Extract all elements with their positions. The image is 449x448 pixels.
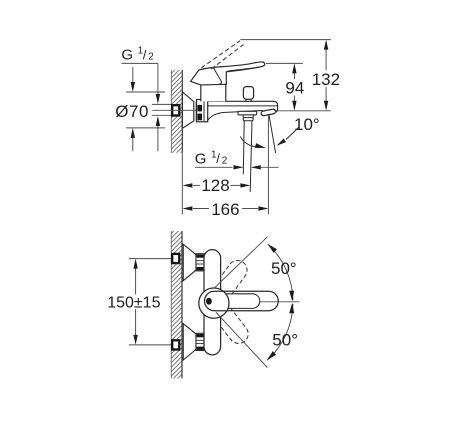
svg-text:2: 2 — [222, 156, 228, 167]
svg-text:50°: 50° — [271, 259, 297, 278]
svg-text:132: 132 — [312, 70, 340, 89]
svg-text:G: G — [121, 47, 133, 64]
svg-text:Ø70: Ø70 — [115, 102, 149, 121]
svg-text:10°: 10° — [294, 115, 320, 134]
svg-text:G: G — [195, 151, 207, 168]
svg-text:166: 166 — [211, 200, 239, 219]
svg-text:150±15: 150±15 — [107, 294, 160, 311]
svg-text:/: / — [143, 47, 147, 62]
svg-text:/: / — [216, 151, 220, 166]
svg-text:2: 2 — [148, 52, 154, 63]
svg-text:94: 94 — [285, 79, 304, 98]
svg-text:128: 128 — [201, 176, 229, 195]
svg-text:50°: 50° — [272, 330, 298, 349]
